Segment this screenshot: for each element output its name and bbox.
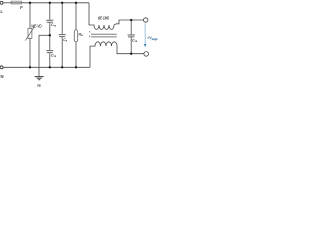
resistor RB	[74, 3, 78, 68]
capacitor CY1	[46, 3, 53, 36]
node dot CY junction	[49, 34, 51, 36]
terminal L	[0, 1, 3, 4]
choke U1 bottom winding	[90, 42, 144, 68]
node dots top rail	[29, 2, 133, 69]
svg-text:PE: PE	[37, 84, 41, 88]
svg-text:F: F	[20, 5, 23, 10]
choke phase dot bottom winding	[89, 36, 90, 37]
wire top rail L to fuse	[3, 2, 11, 4]
node dots bottom rail	[29, 66, 31, 68]
choke U1 top winding (WE-CMB)	[89, 3, 144, 30]
wire top rail fuse to choke	[21, 2, 89, 4]
terminal L out	[144, 18, 148, 22]
varistor RV1 (WE-VD)	[25, 3, 34, 68]
wire PE stem down	[38, 35, 40, 76]
capacitor CY3	[128, 20, 135, 54]
ground PE	[35, 77, 44, 80]
node dot output top	[130, 19, 132, 21]
svg-text:WE-CMB: WE-CMB	[98, 16, 109, 21]
wire bottom rail N	[3, 66, 90, 68]
svg-text:+Vsurge: +Vsurge	[147, 36, 158, 41]
terminal N	[0, 66, 3, 69]
svg-text:WE-VD: WE-VD	[31, 23, 42, 28]
choke core	[91, 34, 117, 37]
terminal N out	[144, 52, 149, 57]
wire junction CY1/CY2 to PE stem	[39, 34, 50, 36]
svg-text:N: N	[1, 74, 4, 79]
voltage arrow +Vsurge	[144, 24, 146, 48]
choke phase dot top winding	[89, 31, 90, 32]
node dot output bottom	[130, 53, 132, 55]
capacitor CY2	[46, 35, 53, 67]
capacitor CX	[59, 3, 66, 68]
fuse F	[11, 1, 21, 4]
